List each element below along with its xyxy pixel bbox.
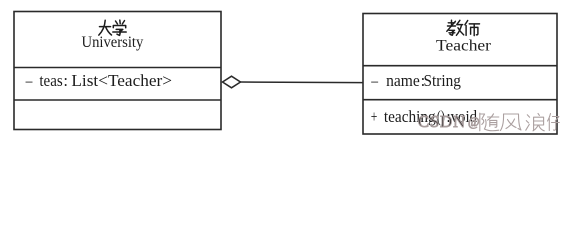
University compartment divider 2 [14,99,221,101]
watermark 随风浪仔 (drawn strokes) [480,113,560,131]
浪 [527,115,529,117]
class name 大学 (drawn strokes) [99,20,126,35]
风 [504,114,522,130]
University compartment divider 1 [14,67,221,69]
仔 [548,114,551,122]
svg-text:List<Teacher>: List<Teacher> [71,71,172,90]
svg-text:CSDN: CSDN [418,112,465,131]
学 [116,21,118,24]
association wire [241,81,364,84]
svg-text:–: – [370,71,378,90]
class box Teacher (outer rect) [363,14,557,135]
svg-text:String: String [424,71,461,90]
svg-text:Teacher: Teacher [436,38,492,55]
aggregation diamond [223,76,241,88]
attribute - name:String [370,71,461,90]
svg-text::: : [63,71,68,90]
svg-text:@: @ [468,115,480,129]
svg-text:name: name [386,71,420,90]
attribute - teas:List&lt;Teacher&gt; [25,71,172,90]
class name 教师 (drawn strokes) [447,20,480,35]
svg-text:teas: teas [39,71,62,90]
svg-text:University: University [82,34,144,51]
watermark CSDN [418,112,480,131]
随 [479,113,481,131]
教 [448,22,455,24]
师 [465,21,468,25]
大 [100,26,111,28]
svg-text:–: – [25,71,33,90]
Teacher compartment divider 2 [363,99,557,101]
Teacher compartment divider 1 [363,65,557,67]
operation + teaching():void [371,107,478,126]
svg-text:+: + [371,107,378,126]
class box University (outer rect) [14,12,221,130]
